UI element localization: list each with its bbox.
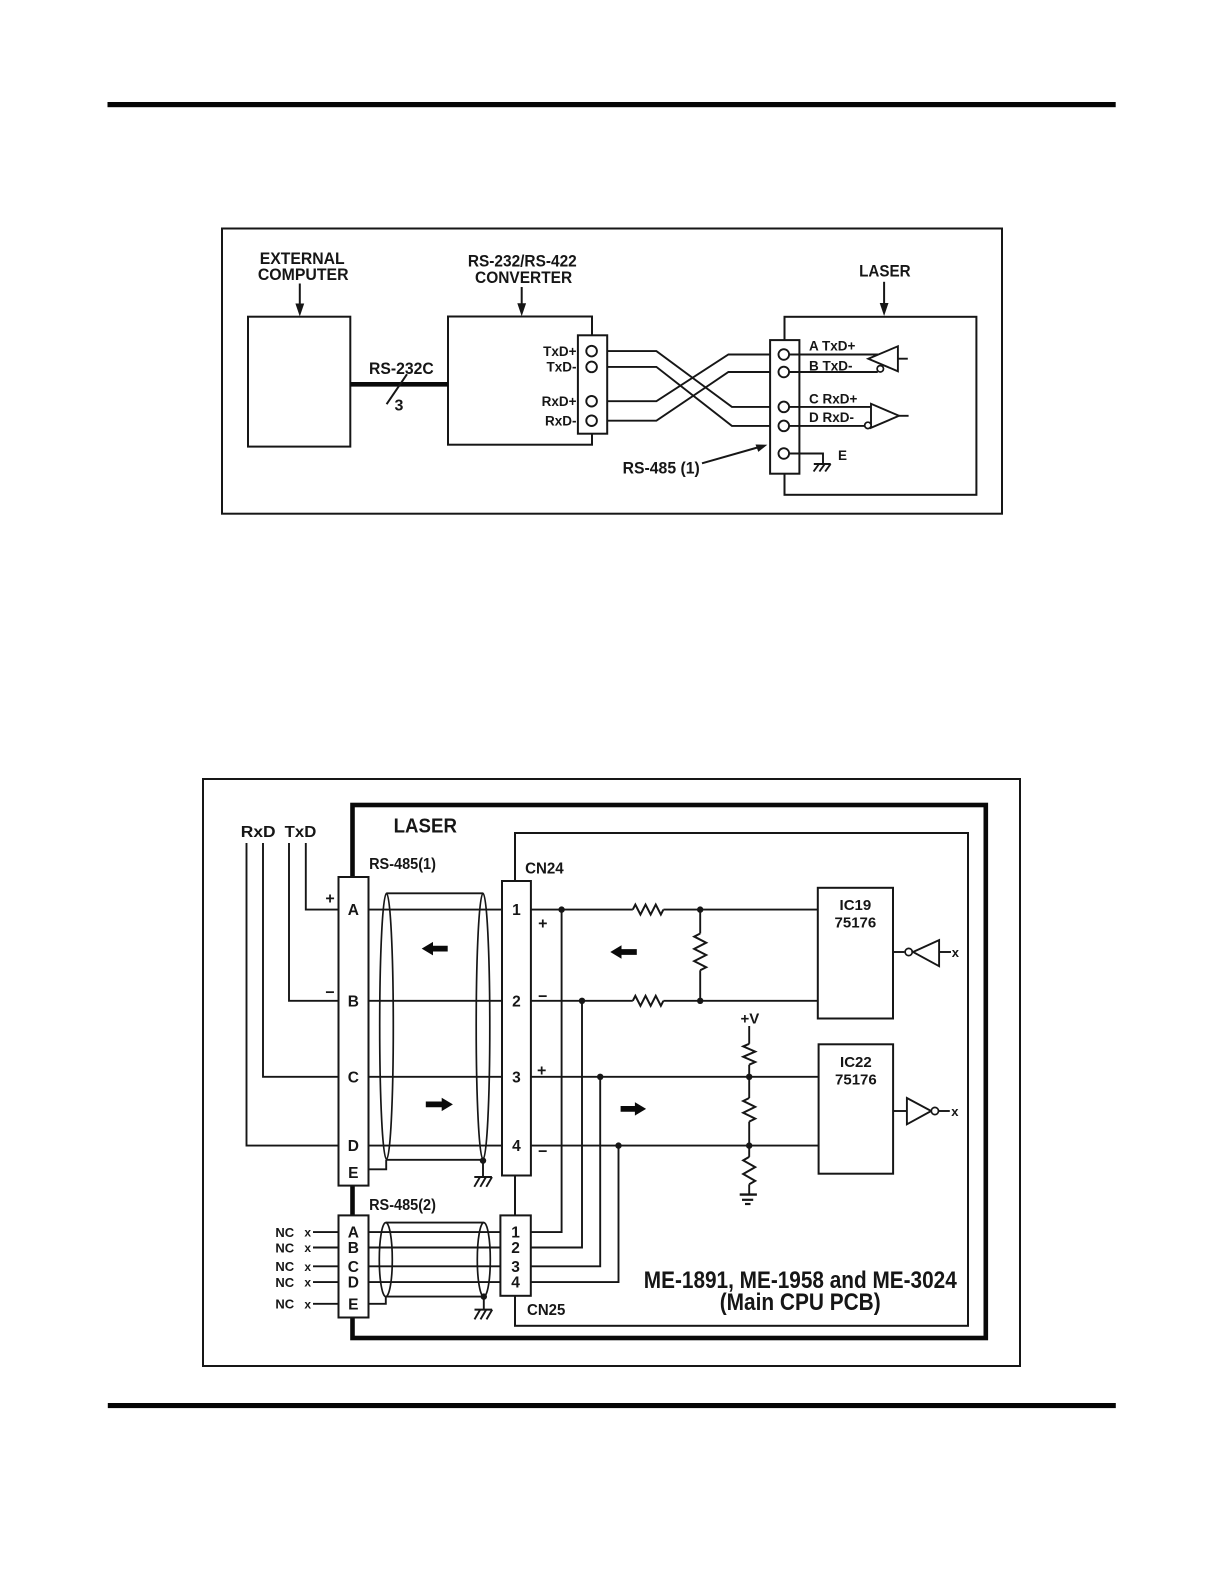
node line2 CN25 riser junction (579, 998, 585, 1004)
wire RxD+ to A (crossover) (597, 355, 779, 402)
wire line4 CN24 to IC22 (531, 1145, 819, 1147)
converter box U-CONV (448, 317, 592, 445)
arrow to laser box (880, 282, 889, 316)
svg-text:RxD-: RxD- (545, 413, 577, 428)
terminal block RS-485(1) A-E (339, 877, 369, 1186)
wire TxD- down to B (289, 843, 339, 1001)
svg-text:1: 1 (512, 902, 521, 919)
wire B row to CN24 pin2 (369, 1000, 503, 1002)
connector CN24 (502, 881, 531, 1176)
svg-text:D RxD-: D RxD- (809, 410, 854, 425)
svg-text:CONVERTER: CONVERTER (475, 268, 572, 287)
driver gate fig1 (right-pointing triangle) (865, 404, 909, 429)
wire CN25 pin3 riser (531, 1077, 600, 1267)
svg-text:3: 3 (512, 1069, 521, 1086)
svg-text:+V: +V (741, 1011, 760, 1028)
svg-text:RS-485 (1): RS-485 (1) (623, 459, 700, 478)
resistor R5 (termination line3-line4) (743, 1077, 755, 1146)
laser box fig1 (785, 317, 977, 495)
svg-text:E: E (348, 1165, 358, 1182)
svg-text:2: 2 (512, 993, 521, 1010)
pin B (779, 367, 790, 378)
receiver gate fig1 (left-pointing triangle) (868, 346, 908, 372)
terminal block RS-485(2) A-E (339, 1215, 369, 1317)
svg-text:TxD: TxD (285, 824, 317, 841)
wire shield to ground (482, 1161, 484, 1177)
svg-text:LASER: LASER (394, 816, 458, 838)
svg-text:A TxD+: A TxD+ (809, 338, 856, 353)
wire D to driver bubble (789, 425, 865, 427)
svg-text:LASER: LASER (859, 262, 911, 281)
svg-text:x: x (304, 1226, 311, 1240)
figure 1 outer border (222, 229, 1002, 514)
wire shield2 to ground (483, 1297, 485, 1310)
svg-text:3: 3 (394, 397, 403, 414)
node line3 R junction (746, 1074, 752, 1080)
svg-text:4: 4 (512, 1138, 521, 1155)
wire A2 row to CN25 pin1 (369, 1231, 501, 1233)
pin RxD+ (586, 396, 597, 407)
svg-text:−: − (325, 985, 334, 1002)
wire E to ground (789, 454, 823, 464)
svg-text:RxD+: RxD+ (542, 394, 577, 409)
svg-text:−: − (538, 989, 547, 1006)
svg-text:x: x (951, 1104, 959, 1119)
svg-text:TxD+: TxD+ (543, 344, 577, 359)
label NC C (275, 1259, 338, 1274)
label NC D (275, 1275, 338, 1290)
svg-text:A: A (348, 902, 359, 919)
wire CN25 pin4 riser (531, 1146, 619, 1283)
external computer box (248, 317, 350, 447)
ground cable 1 (474, 1177, 492, 1187)
svg-text:CN25: CN25 (527, 1302, 565, 1319)
converter terminal block (578, 335, 607, 433)
wire RxD+ down to C (263, 843, 339, 1077)
svg-text:NC: NC (275, 1297, 294, 1312)
wire B to receiver bubble (789, 371, 878, 373)
pin C (779, 402, 790, 413)
arrow to external computer box (295, 284, 304, 317)
IC U-IC19 75176 (818, 888, 893, 1019)
svg-text:E: E (348, 1296, 358, 1313)
svg-text:(Main CPU PCB): (Main CPU PCB) (720, 1289, 881, 1316)
svg-text:x: x (304, 1276, 311, 1290)
pin A (779, 349, 790, 360)
wire D row to CN24 pin4 (369, 1145, 503, 1147)
figure 2 outer border (203, 779, 1020, 1366)
node line2 R3 junction (697, 998, 703, 1004)
bus slash 3 (387, 374, 407, 414)
resistor R3 (termination between line1 and line2) (694, 910, 706, 1001)
label NC E (275, 1297, 338, 1312)
pin E (779, 448, 790, 459)
wire E2 to cable 2 shield (369, 1297, 386, 1304)
wire C2 row to CN25 pin3 (369, 1265, 501, 1267)
svg-text:x: x (304, 1241, 311, 1255)
svg-text:75176: 75176 (835, 914, 877, 931)
svg-text:2: 2 (511, 1240, 520, 1257)
pin TxD+ (586, 346, 597, 357)
wire E to cable 1 shield (369, 1160, 387, 1170)
IC U-IC22 75176 (819, 1044, 894, 1173)
svg-text:75176: 75176 (835, 1071, 877, 1088)
resistor R6 (pulldown to ground) (743, 1146, 755, 1194)
wire CN25 pin1 riser (531, 910, 562, 1233)
wire C row to CN24 pin3 (369, 1076, 503, 1078)
svg-text:+: + (325, 891, 334, 908)
ground R6 (earth bars) (740, 1195, 757, 1204)
svg-text:RS-485(1): RS-485(1) (369, 856, 436, 873)
arrow transmit direction (cable) (426, 1098, 453, 1111)
svg-text:TxD-: TxD- (547, 360, 577, 375)
node line3 CN25 riser junction (597, 1074, 603, 1080)
svg-text:x: x (304, 1297, 311, 1311)
label NC B (275, 1240, 338, 1255)
cable 1 shield bottom line (387, 1159, 484, 1161)
wire CN25 pin2 riser (531, 1001, 582, 1248)
svg-text:IC19: IC19 (840, 897, 872, 914)
node cable2 shield junction (481, 1293, 487, 1299)
bottom page rule (108, 1403, 1116, 1408)
wire TxD+ to C (crossover) (597, 351, 779, 407)
svg-text:C RxD+: C RxD+ (809, 391, 858, 406)
wire RxD- to B (crossover) (597, 372, 779, 421)
svg-text:CN24: CN24 (525, 861, 564, 878)
wire TxD+ down to A (306, 843, 339, 910)
wire line1 CN24 to IC19 with resistor R1 (531, 905, 818, 915)
wire B2 row to CN25 pin2 (369, 1247, 501, 1249)
svg-text:+: + (538, 915, 547, 932)
label NC A (275, 1225, 338, 1240)
pin D (779, 421, 790, 432)
ground cable 2 (475, 1310, 493, 1320)
pin RxD- (586, 415, 597, 426)
wire A to receiver (789, 354, 878, 356)
arrow RS-485 (1) pointer (702, 445, 767, 464)
resistor R4 (+V pullup) (743, 1026, 755, 1077)
laser box fig2 (thick) (353, 805, 986, 1338)
svg-text:x: x (952, 945, 960, 960)
label RS-232/RS-422 CONVERTER (468, 252, 577, 287)
svg-text:NC: NC (275, 1240, 294, 1255)
svg-text:RS-485(2): RS-485(2) (369, 1197, 436, 1214)
cable 2 shield top line (386, 1222, 484, 1224)
node line4 R junction (746, 1142, 752, 1148)
node cable1 shield junction (480, 1157, 486, 1163)
svg-text:NC: NC (275, 1225, 294, 1240)
node line1 R3 junction (697, 906, 703, 912)
svg-text:NC: NC (275, 1259, 294, 1274)
main CPU PCB box (515, 833, 968, 1326)
svg-text:D: D (348, 1275, 359, 1292)
laser terminal block fig1 (770, 340, 799, 474)
node line1 CN25 riser junction (558, 906, 564, 912)
node line4 CN25 riser junction (615, 1142, 621, 1148)
arrow transmit direction (PCB) (621, 1102, 647, 1115)
pin TxD- (586, 362, 597, 373)
svg-text:IC22: IC22 (840, 1054, 872, 1071)
svg-text:D: D (348, 1138, 359, 1155)
wire line3 CN24 to IC22 (531, 1076, 819, 1078)
wire C to driver (789, 406, 871, 408)
svg-text:x: x (304, 1260, 311, 1274)
wire RxD- down to D (247, 843, 339, 1146)
cable 2 shield (right ellipse) (477, 1223, 490, 1297)
svg-text:4: 4 (511, 1275, 520, 1292)
arrow receive direction (cable) (422, 942, 448, 956)
wire A row to CN24 pin1 (369, 909, 503, 911)
RS-232C bus (thick wire) (350, 382, 448, 387)
svg-text:C: C (348, 1259, 359, 1276)
cable 1 shield (right ellipse) (476, 893, 490, 1159)
receiver gate IC19 (893, 940, 960, 966)
svg-text:E: E (838, 448, 847, 463)
svg-text:RS-232C: RS-232C (369, 359, 434, 378)
svg-text:3: 3 (511, 1259, 520, 1276)
arrow receive direction (PCB) (610, 945, 637, 958)
driver gate IC22 (893, 1098, 959, 1124)
svg-text:B: B (348, 1240, 359, 1257)
cable 1 shield (left ellipse) (380, 893, 394, 1159)
cable 1 shield top line (387, 892, 484, 894)
connector CN25 (500, 1215, 530, 1295)
wire line2 CN24 to IC19 with resistor R2 (531, 996, 818, 1006)
svg-text:RxD: RxD (241, 824, 276, 841)
ground E fig1 (814, 464, 831, 472)
label EXTERNAL COMPUTER (258, 249, 349, 284)
wire D2 row to CN25 pin4 (369, 1281, 501, 1283)
arrow to converter box (517, 287, 526, 316)
svg-text:COMPUTER: COMPUTER (258, 265, 349, 284)
top page rule (108, 102, 1116, 107)
svg-text:B: B (348, 993, 359, 1010)
cable 2 shield (left ellipse) (379, 1223, 392, 1297)
svg-text:C: C (348, 1069, 359, 1086)
cable 2 shield bottom line (386, 1296, 484, 1298)
svg-text:NC: NC (275, 1275, 294, 1290)
wire TxD- to D (crossover) (597, 367, 779, 426)
